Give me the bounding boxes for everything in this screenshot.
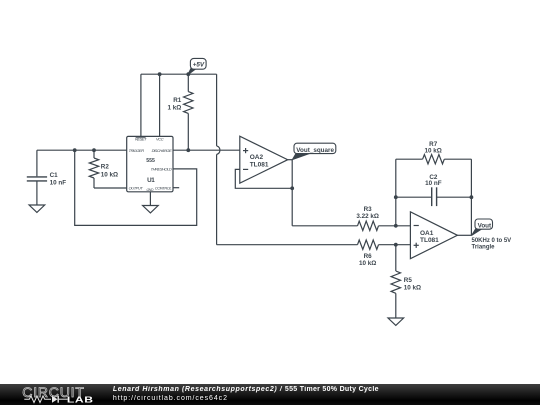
- svg-text:THRESHOLD: THRESHOLD: [151, 167, 172, 172]
- svg-text:Vout: Vout: [478, 222, 492, 229]
- svg-text:555: 555: [146, 158, 155, 164]
- svg-text:DISCHARGE: DISCHARGE: [152, 148, 173, 153]
- svg-text:R1: R1: [173, 97, 182, 104]
- svg-text:+5V: +5V: [193, 61, 205, 68]
- svg-text:VCC: VCC: [156, 137, 164, 142]
- svg-text:TRIGGER: TRIGGER: [129, 148, 145, 153]
- svg-text:OA1: OA1: [420, 230, 434, 237]
- svg-text:R6: R6: [364, 253, 373, 260]
- svg-text:50KHz 0 to 5V: 50KHz 0 to 5V: [472, 238, 512, 244]
- svg-text:OUTPUT: OUTPUT: [129, 186, 144, 191]
- svg-text:U1: U1: [147, 177, 155, 184]
- svg-text:LAB: LAB: [67, 397, 94, 405]
- svg-text:10 nF: 10 nF: [50, 180, 67, 187]
- svg-text:R2: R2: [101, 164, 110, 171]
- svg-text:OA2: OA2: [250, 154, 264, 161]
- svg-text:10 kΩ: 10 kΩ: [425, 147, 442, 154]
- svg-text:C1: C1: [50, 172, 59, 179]
- svg-text:TL081: TL081: [250, 161, 269, 168]
- svg-text:R3: R3: [364, 206, 373, 213]
- svg-text:Vout_square: Vout_square: [296, 147, 334, 154]
- svg-text:3.22 kΩ: 3.22 kΩ: [356, 213, 379, 220]
- svg-text:10 nF: 10 nF: [425, 180, 442, 187]
- svg-text:10 kΩ: 10 kΩ: [101, 171, 118, 178]
- svg-text:GND: GND: [146, 188, 153, 192]
- svg-text:1 kΩ: 1 kΩ: [167, 104, 181, 111]
- svg-text:10 kΩ: 10 kΩ: [359, 260, 376, 267]
- svg-text:CONTROL: CONTROL: [155, 186, 172, 191]
- svg-text:Triangle: Triangle: [472, 245, 496, 251]
- svg-text:R5: R5: [404, 277, 413, 284]
- svg-text:10 kΩ: 10 kΩ: [404, 284, 421, 291]
- svg-text:TL081: TL081: [420, 237, 439, 244]
